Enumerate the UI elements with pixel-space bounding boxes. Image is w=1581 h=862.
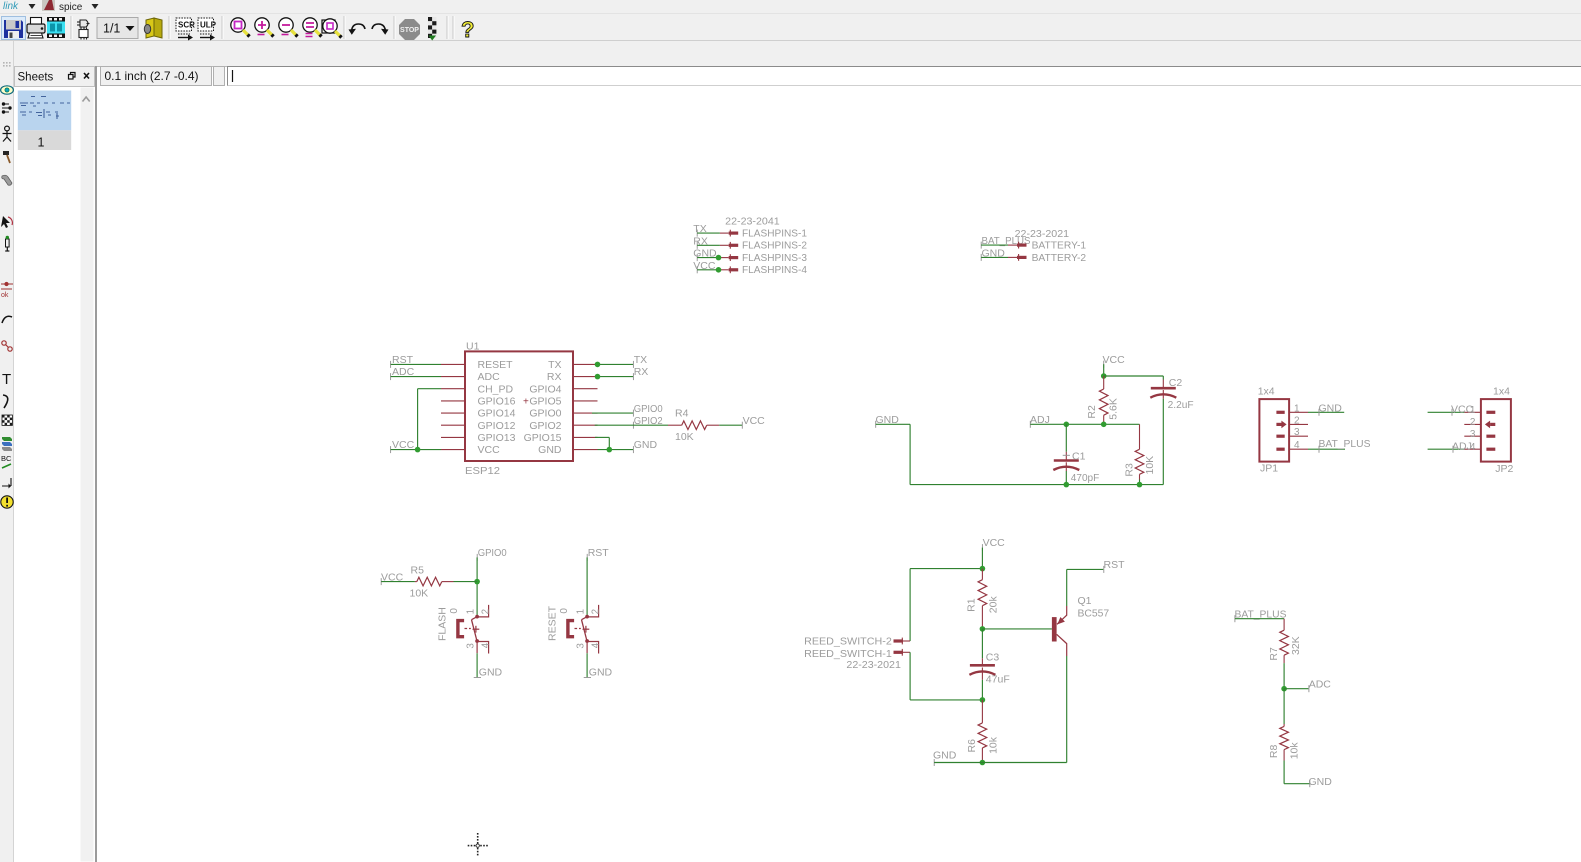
svg-text:R1: R1	[966, 598, 978, 612]
wire C2 to bottom rail	[1162, 399, 1164, 485]
U1 right pin names	[523, 359, 562, 456]
svg-text:10k: 10k	[988, 736, 1000, 754]
svg-text:2: 2	[590, 609, 601, 614]
wire ADJ rail	[1030, 423, 1139, 425]
wire BAT_PLUS to BATTERY-1	[981, 244, 1017, 246]
wire R8 to GND	[1284, 761, 1310, 784]
svg-text:1x4: 1x4	[1258, 386, 1275, 398]
pin BATTERY-2	[1017, 252, 1086, 264]
svg-text:RESET: RESET	[478, 359, 514, 371]
net label VCC at U1	[391, 439, 415, 453]
svg-text:GPIO2: GPIO2	[529, 420, 561, 432]
svg-text:1: 1	[466, 609, 477, 614]
svg-text:VCC: VCC	[983, 537, 1006, 549]
svg-text:R6: R6	[966, 739, 978, 753]
net label VCC at R5	[381, 571, 404, 585]
svg-text:ADC: ADC	[478, 371, 501, 383]
wire VCC to VCC pin	[391, 449, 441, 451]
svg-text:C2: C2	[1169, 377, 1183, 389]
svg-text:GPIO0: GPIO0	[634, 403, 663, 415]
resistor R8 10k	[1280, 689, 1289, 761]
svg-text:C3: C3	[986, 652, 1000, 664]
svg-text:4: 4	[590, 642, 601, 648]
junction GND/GPIO15	[607, 447, 613, 453]
pin FLASHPINS-2	[729, 240, 807, 252]
svg-text:GND: GND	[479, 667, 503, 679]
net label VCC (Q1 area)	[982, 537, 1005, 551]
IC U1 ESP12 body	[465, 341, 573, 478]
pin FLASHPINS-3	[729, 252, 807, 264]
svg-text:FLASHPINS-1: FLASHPINS-1	[742, 228, 807, 240]
svg-text:10k: 10k	[1289, 742, 1301, 760]
wire switch FLASH to GND	[476, 653, 478, 677]
JP1 pin marks	[1276, 411, 1286, 451]
net label ADJ at JP2	[1452, 441, 1472, 453]
resistor R7 32K	[1280, 619, 1289, 663]
svg-text:1x4: 1x4	[1493, 386, 1510, 398]
wire VCC down	[1103, 364, 1105, 376]
svg-text:GPIO0: GPIO0	[478, 547, 507, 559]
JP1 pin stubs	[1289, 412, 1308, 449]
svg-text:Q1: Q1	[1078, 595, 1092, 607]
svg-text:3: 3	[466, 643, 477, 649]
JP1 pin numbers	[1294, 403, 1300, 451]
svg-text:R2: R2	[1086, 405, 1098, 419]
svg-text:20k: 20k	[988, 596, 1000, 614]
label FLASH	[437, 607, 461, 641]
junction ADJ/C1	[1064, 422, 1070, 428]
wire RX to FLASHPINS-2	[697, 244, 729, 246]
svg-text:+: +	[523, 396, 529, 407]
net label BAT_PLUS (divider)	[1235, 608, 1287, 622]
junction R6/GND rail	[980, 760, 986, 766]
junction R1/C3/Q1 base	[980, 626, 986, 632]
wire VCC to JP2-1	[1428, 411, 1465, 413]
svg-text:47uF: 47uF	[986, 673, 1010, 685]
resistor R2 5.6K	[1099, 376, 1108, 424]
junction GPIO0/R5	[474, 579, 480, 585]
net label GPIO0 (flash)	[477, 547, 507, 561]
svg-text:R4: R4	[675, 408, 689, 420]
wire R7 to ADC junction	[1283, 663, 1285, 689]
transistor Q1 BC557	[1052, 595, 1109, 656]
svg-text:R3: R3	[1124, 463, 1136, 477]
svg-text:0: 0	[449, 608, 460, 614]
net label RST at U1	[391, 354, 414, 368]
svg-text:JP2: JP2	[1495, 463, 1513, 475]
svg-text:C1: C1	[1072, 450, 1086, 462]
svg-text:BC557: BC557	[1078, 608, 1110, 620]
net label GND (reset)	[584, 667, 613, 679]
net label GND (divider)	[1309, 776, 1333, 788]
net label VCC at R4	[742, 415, 765, 429]
wire VCC down	[981, 548, 983, 569]
JP2 pin numbers	[1470, 405, 1476, 453]
svg-text:VCC: VCC	[743, 415, 766, 427]
wire C1 to bottom rail	[1065, 471, 1067, 485]
wire GND to FLASHPINS-3	[697, 255, 729, 261]
wire switch RESET to GND	[586, 653, 588, 677]
junction C3/reed1/R6	[980, 697, 986, 703]
svg-text:3: 3	[1294, 427, 1300, 438]
net label RST at Q1	[1104, 559, 1126, 573]
svg-text:ADC: ADC	[1309, 679, 1332, 691]
net label TX (flashpins row 1)	[693, 223, 706, 236]
net label VCC (divider top)	[1103, 354, 1126, 368]
wire TX to FLASHPINS-1	[697, 232, 729, 234]
svg-text:RX: RX	[547, 371, 562, 383]
pin numbers RESET	[576, 609, 602, 649]
pin BATTERY-1	[1017, 240, 1086, 252]
U1 right pin stubs	[574, 364, 598, 449]
resistor R6 10k	[978, 700, 987, 763]
wire RST to RESET pin	[391, 363, 441, 365]
resistor R1 20k	[978, 569, 987, 629]
net label VCC (flashpins row 4)	[693, 260, 716, 273]
connector FLASHPINS 22-23-2041	[725, 216, 780, 228]
svg-text:3: 3	[1470, 429, 1476, 440]
svg-text:FLASH: FLASH	[437, 607, 449, 641]
JP2 pin marks	[1485, 411, 1495, 451]
junction RX	[595, 374, 601, 380]
net label GND (regulator)	[876, 414, 900, 428]
svg-text:GND: GND	[589, 667, 613, 679]
net label ADC (divider)	[1309, 679, 1332, 693]
capacitor C3 47uF	[969, 629, 1009, 700]
wire Q1 emitter to RST	[1067, 569, 1104, 606]
wire GPIO0 down to switch	[476, 557, 478, 615]
connector JP1 1x4 body	[1258, 386, 1289, 475]
wire TX	[598, 363, 634, 365]
svg-text:GPIO16: GPIO16	[478, 396, 516, 408]
svg-text:0: 0	[559, 608, 570, 614]
wire GND (U1)	[598, 449, 634, 451]
svg-text:GND: GND	[933, 749, 957, 761]
svg-text:JP1: JP1	[1260, 463, 1278, 475]
svg-text:2: 2	[1470, 417, 1476, 428]
svg-text:FLASHPINS-3: FLASHPINS-3	[742, 252, 807, 264]
svg-text:R7: R7	[1268, 647, 1280, 661]
junction TX	[595, 362, 601, 368]
net label GND at U1	[633, 439, 657, 453]
svg-text:RST: RST	[588, 547, 610, 559]
connector BATTERY 22-23-2021	[1015, 228, 1070, 240]
net label GPIO2 at U1	[633, 415, 662, 429]
wire VCC junction to C2	[1104, 376, 1164, 380]
wire base to Q1	[982, 628, 1052, 630]
net label ADJ	[1030, 414, 1050, 428]
pin REED_SWITCH-1	[804, 648, 910, 660]
svg-text:2: 2	[480, 609, 491, 614]
wire RST down to switch	[586, 557, 588, 615]
svg-text:VCC: VCC	[478, 444, 501, 456]
wire GND to BATTERY-2	[981, 256, 1017, 258]
wire VCC to FLASHPINS-4	[697, 267, 729, 273]
svg-text:22-23-2021: 22-23-2021	[846, 659, 901, 671]
wire JP1-4 to BAT_PLUS	[1308, 448, 1345, 450]
svg-text:GPIO13: GPIO13	[478, 432, 516, 444]
net label VCC at JP2	[1451, 404, 1474, 416]
net label GND (Q1 area)	[933, 749, 957, 766]
svg-text:GPIO12: GPIO12	[478, 420, 516, 432]
wire BAT_PLUS to R7	[1235, 618, 1284, 620]
junction ADJ/R2	[1101, 422, 1107, 428]
JP2 pin stubs	[1464, 412, 1481, 449]
svg-text:470pF: 470pF	[1071, 472, 1100, 484]
label RESET	[547, 605, 571, 641]
U1 left pin stubs	[441, 364, 464, 449]
wire JP1-1 to GND	[1308, 411, 1344, 413]
svg-text:GND: GND	[538, 444, 562, 456]
svg-text:10K: 10K	[410, 588, 429, 600]
pin numbers FLASH	[466, 609, 492, 649]
svg-text:2: 2	[1294, 415, 1300, 426]
net label GND (battery)	[981, 247, 1005, 261]
wire ADC to ADC pin	[391, 376, 441, 378]
svg-text:VCC: VCC	[1103, 354, 1126, 366]
wire GND bottom rail	[876, 424, 1164, 484]
svg-text:TX: TX	[548, 359, 561, 371]
wire GND rail to collector	[934, 762, 1066, 764]
svg-text:GND: GND	[1309, 776, 1333, 788]
svg-text:3: 3	[576, 643, 587, 649]
svg-text:BATTERY-2: BATTERY-2	[1032, 252, 1087, 264]
pin FLASHPINS-4	[729, 264, 807, 276]
svg-text:R5: R5	[411, 565, 425, 577]
wire GPIO15 to GND corner	[595, 437, 609, 449]
net label RST (reset button)	[587, 547, 609, 561]
capacitor C2 2.2uF	[1150, 377, 1193, 411]
svg-text:RST: RST	[1104, 559, 1126, 571]
junction VCC/CH_PD	[415, 447, 421, 453]
svg-text:4: 4	[1294, 440, 1300, 451]
pin FLASHPINS-1	[729, 228, 807, 240]
switch FLASH (pushbutton)	[458, 605, 489, 654]
svg-text:5.6K: 5.6K	[1107, 398, 1119, 420]
svg-text:10K: 10K	[675, 431, 694, 443]
wire Q1 collector down to GND rail	[1066, 656, 1068, 763]
svg-text:GPIO0: GPIO0	[529, 408, 561, 420]
svg-text:GND: GND	[634, 439, 658, 451]
pin REED_SWITCH-2	[804, 635, 910, 647]
svg-text:BAT_PLUS: BAT_PLUS	[1319, 438, 1371, 450]
svg-text:10K: 10K	[1144, 456, 1156, 475]
net label BAT_PLUS at JP1	[1319, 438, 1371, 453]
U1 left pin names	[478, 359, 516, 456]
svg-text:GPIO4: GPIO4	[529, 383, 561, 395]
wire VCC junction left	[910, 568, 982, 570]
svg-text:RX: RX	[634, 366, 649, 378]
net label GPIO0 at U1	[633, 403, 662, 417]
svg-text:32K: 32K	[1290, 636, 1302, 655]
svg-text:ADJ: ADJ	[1452, 441, 1472, 453]
resistor R4 10K	[668, 408, 719, 443]
net label TX at U1	[633, 354, 647, 368]
junction VCC/R2/C2	[1101, 373, 1107, 379]
wire ADJ to JP2-4	[1428, 448, 1465, 450]
junction VCC/R1	[980, 566, 986, 572]
net label RX (flashpins row 2)	[693, 235, 708, 248]
wire GPIO2 to R4	[595, 424, 668, 426]
svg-text:BATTERY-1: BATTERY-1	[1032, 240, 1087, 252]
svg-text:1: 1	[1294, 403, 1300, 414]
svg-text:RESET: RESET	[547, 605, 559, 641]
svg-text:GPIO14: GPIO14	[478, 408, 516, 420]
wire reed switch 1 down to C3 bottom	[910, 652, 982, 700]
svg-text:2.2uF: 2.2uF	[1168, 399, 1194, 411]
net label RX at U1	[633, 366, 648, 380]
capacitor C1 470pF	[1053, 424, 1099, 484]
svg-text:VCC: VCC	[1451, 404, 1474, 416]
net label ADC at U1	[391, 366, 415, 380]
svg-text:FLASHPINS-2: FLASHPINS-2	[742, 240, 807, 252]
switch RESET (pushbutton)	[568, 605, 599, 654]
net label GND (flashpins row 3)	[693, 248, 717, 261]
net label BAT_PLUS	[981, 235, 1030, 248]
svg-text:TX: TX	[634, 354, 647, 366]
svg-text:ESP12: ESP12	[465, 465, 500, 477]
wire CH_PD to VCC (down)	[418, 389, 441, 450]
svg-text:U1: U1	[466, 341, 480, 353]
junction ADC	[1281, 686, 1287, 692]
net label GND (flash)	[474, 667, 503, 679]
wire R4 to VCC	[719, 424, 742, 426]
wire ADC tap	[1284, 688, 1308, 690]
resistor R3 10K	[1135, 424, 1144, 479]
net label GND at JP1	[1319, 402, 1343, 416]
connector JP2 1x4 body	[1481, 386, 1514, 475]
svg-text:FLASHPINS-4: FLASHPINS-4	[742, 264, 807, 276]
junction rail/R3	[1137, 482, 1143, 488]
junction rail/C1	[1064, 482, 1070, 488]
svg-text:GPIO5: GPIO5	[529, 396, 561, 408]
wire GPIO0	[592, 412, 634, 414]
wire RX	[598, 376, 634, 378]
resistor R5 10K	[381, 565, 477, 600]
wire left branch down to reed switch 2	[909, 569, 911, 641]
svg-text:REED_SWITCH-2: REED_SWITCH-2	[804, 635, 892, 647]
label 22-23-2021 (reed switch)	[846, 659, 901, 671]
svg-text:GND: GND	[1319, 402, 1343, 414]
svg-text:22-23-2041: 22-23-2041	[725, 216, 780, 228]
svg-text:1: 1	[576, 609, 587, 614]
svg-text:R8: R8	[1268, 745, 1280, 759]
svg-text:4: 4	[480, 642, 491, 648]
wire R3 to bottom rail	[1139, 480, 1141, 485]
svg-text:CH_PD: CH_PD	[478, 383, 514, 395]
crosshair cursor	[468, 833, 488, 855]
svg-text:GPIO15: GPIO15	[524, 432, 562, 444]
